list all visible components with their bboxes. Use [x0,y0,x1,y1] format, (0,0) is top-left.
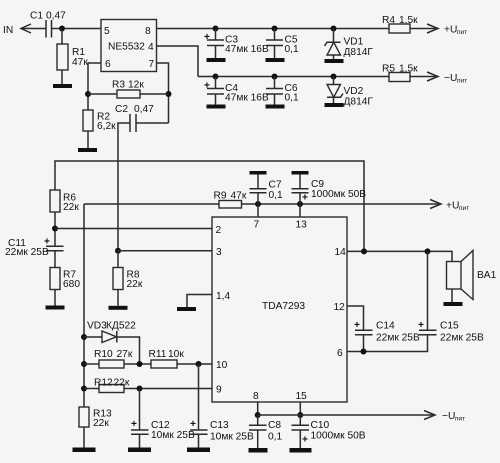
node R3 right junction [166,91,172,97]
node R3 left junction [85,91,91,97]
svg-text:VD1: VD1 [344,37,364,48]
ground above C9 [292,171,309,175]
node VD1 junction [331,26,337,32]
svg-text:NE5532: NE5532 [108,42,145,53]
svg-text:8: 8 [253,391,259,402]
svg-text:8: 8 [145,26,151,37]
capacitor C1 0,47 [30,11,66,38]
capacitor C6 0,1 [266,77,299,105]
resistor R10 27к [94,349,133,368]
resistor R9 47к [214,191,247,209]
svg-text:22мк 25В: 22мк 25В [440,333,484,344]
wire C7 node to pin 7 [257,204,259,217]
svg-text:9: 9 [216,385,222,396]
svg-text:1000мк 50В: 1000мк 50В [311,431,366,442]
svg-text:1000мк 50В: 1000мк 50В [311,189,366,200]
ground above C7 [250,171,267,175]
resistor R12 22к [94,378,130,393]
wire C14 to pin6 line [363,335,365,352]
resistor R7 680 [50,268,80,291]
ground under C6 [266,105,285,109]
node -U bottom supply arrow [424,411,465,423]
svg-text:10мк 25В: 10мк 25В [151,430,195,441]
wire pin 15 stub [299,402,301,415]
svg-text:27к: 27к [117,349,133,360]
svg-text:22мк 25В: 22мк 25В [5,247,49,258]
wire R7 to ground [54,290,56,306]
svg-text:7: 7 [149,59,155,70]
svg-text:C15: C15 [440,321,459,332]
capacitor C12 10мк 25В [131,419,195,441]
svg-text:+: + [418,320,424,331]
wire speaker to ground [451,289,453,302]
svg-text:680: 680 [63,279,80,290]
wire C11 to R7 [54,251,56,268]
wire pin 6 line [347,335,428,352]
wire pin 2 [55,228,212,230]
node pin8/C8 junction [255,412,261,418]
svg-text:22к: 22к [127,279,143,290]
svg-text:22к: 22к [114,378,130,389]
svg-text:+: + [131,419,137,430]
node C14/pin6 junction [361,349,367,355]
svg-text:22к: 22к [93,418,109,429]
svg-text:12к: 12к [128,80,144,91]
wire pin 4 [157,46,199,77]
svg-text:R9: R9 [214,191,227,202]
svg-text:+U: +U [446,201,459,212]
node R12 left junction [81,386,87,392]
svg-text:C8: C8 [268,420,281,431]
wire C12 drop [139,389,141,431]
svg-text:3: 3 [216,247,222,258]
ground under VD1 [325,59,344,63]
capacitor C11 22мк 25В [5,237,64,259]
capacitor C10 1000мк 50В [292,415,366,448]
svg-text:0,47: 0,47 [46,11,66,22]
node C4 junction [213,74,219,80]
node C15 tap junction [425,248,431,254]
svg-text:BA1: BA1 [477,270,497,281]
wire pin 6 to feedback node [88,63,101,110]
resistor R1 47к [57,44,88,70]
wire pin 7 to output node [157,63,169,123]
svg-text:0,47: 0,47 [134,104,154,115]
wire -aux rail [198,76,389,78]
node R11/C13 junction [196,361,202,367]
zener diode VD2 Д814Г [327,77,373,108]
svg-text:+U: +U [444,25,457,36]
wire pin 3 [118,250,212,252]
svg-text:C10: C10 [311,420,330,431]
node IN input arrow [3,24,31,36]
wire -U bottom rail [258,414,434,416]
resistor R2 6,2к [83,110,116,132]
svg-text:47к: 47к [72,57,88,68]
wire pin 8 stub [257,402,259,415]
ground under C3 [207,58,226,62]
wire to R8 [117,251,119,268]
ground under C8 [249,448,268,453]
wire R2 to ground [87,131,89,148]
ground under C4 [207,105,226,109]
node C5 junction [272,26,278,32]
svg-text:−U: −U [442,411,455,422]
wire R6 to node [54,212,56,246]
resistor R4 1,5к [382,15,418,33]
wire pin 8 to +aux rail [157,28,390,30]
svg-text:пит: пит [457,29,467,36]
svg-text:Д814Г: Д814Г [344,47,374,58]
svg-text:R12: R12 [94,378,113,389]
wire +U mid rail right part to arrow [242,203,441,205]
ground under C12 [128,448,151,453]
wire C2 right to pin7 node [136,122,169,124]
node feedback tap junction [361,248,367,254]
svg-text:1,5к: 1,5к [399,64,418,75]
svg-text:IN: IN [3,25,13,36]
diode VD3 КД522 [87,321,136,343]
node -U supply arrow [427,72,467,85]
svg-text:1,5к: 1,5к [399,15,418,26]
wire VD3 anode [84,336,102,338]
wire C13 to ground [198,434,200,447]
wire left vertical bus from R9 down to R13 [83,204,85,407]
svg-text:пит: пит [457,78,467,85]
node C6 junction [272,74,278,80]
wire input line to C1 [21,28,46,30]
wire C1 to NE5532 pin 5 [52,28,102,30]
svg-text:22мк 25В: 22мк 25В [376,333,420,344]
svg-text:+: + [354,320,360,331]
svg-text:1,4: 1,4 [216,291,230,302]
wire VD3 cathode down to R10/R11 node [117,337,140,364]
svg-text:C13: C13 [210,420,229,431]
wire +U mid rail left part [84,203,219,205]
svg-text:47мк 16В: 47мк 16В [225,93,269,104]
capacitor C4 47мк 16В [204,77,269,105]
capacitor C2 0,47 [115,104,154,132]
wire C13 drop [198,364,200,430]
svg-text:0,1: 0,1 [269,190,283,201]
wire feedback rail from output to R6 [55,161,364,251]
resistor R11 10к [149,349,185,368]
wire pin 12 to C14 [347,306,364,330]
svg-text:R3: R3 [112,80,125,91]
svg-text:C7: C7 [269,180,282,191]
svg-text:R10: R10 [94,349,113,360]
capacitor C9 1000мк 50В [292,175,367,205]
resistor R8 22к [113,268,143,291]
svg-text:13: 13 [296,220,308,231]
svg-text:47к: 47к [231,191,247,202]
wire R1 to ground [61,70,63,84]
svg-text:пит: пит [459,205,469,212]
wire R4 to +U arrow [410,28,437,30]
op-amp U1 NE5532 [101,20,157,72]
wire R10 to R11 [124,363,151,365]
ground under R8 [109,306,128,310]
svg-text:R11: R11 [149,349,167,360]
node R12/C12 junction [137,386,143,392]
wire pin 1,4 to ground [187,295,212,308]
ground under R13 [73,448,96,453]
svg-text:−U: −U [444,73,457,84]
ground under R2 [78,148,97,152]
node C3 junction [213,26,219,32]
svg-text:7: 7 [254,220,260,231]
svg-text:10мк 25В: 10мк 25В [210,432,254,443]
svg-text:+: + [204,32,210,43]
ground under R7 [46,306,65,310]
ground under R1 [53,84,72,88]
svg-text:+: + [44,237,50,248]
ground under VD2 [325,103,344,107]
node +U supply arrow [427,24,467,36]
svg-text:47мк 16В: 47мк 16В [225,44,269,55]
svg-text:+: + [190,419,196,430]
wire R12 to pin 9 [124,388,212,390]
svg-text:C14: C14 [376,321,395,332]
svg-text:R4: R4 [382,15,395,26]
svg-text:4: 4 [148,42,154,53]
resistor R3 12к [112,80,144,99]
node C9 junction [297,201,303,207]
svg-text:22к: 22к [63,202,79,213]
wire R12 left [84,388,99,390]
svg-text:C1: C1 [30,11,43,22]
wire R5 to -U arrow [410,76,437,78]
node VD3 left junction [81,334,87,340]
node VD2 junction [331,74,337,80]
capacitor C8 0,1 [249,415,282,448]
svg-text:6: 6 [105,59,111,70]
svg-text:пит: пит [455,416,465,423]
capacitor C7 0,1 [250,175,283,205]
svg-text:Д814Г: Д814Г [344,97,374,108]
capacitor C14 22мк 25В [354,320,420,344]
svg-text:VD2: VD2 [344,86,364,97]
wire C12 to ground [139,434,141,447]
wire R10 left [84,363,99,365]
ground under C13 [187,448,210,453]
amplifier IC TDA7293 [212,217,347,402]
wire R11 to pin 10 [177,363,212,365]
capacitor C15 22мк 25В [418,320,484,344]
capacitor C13 10мк 25В [190,419,254,443]
node C7 junction [255,201,261,207]
svg-text:C2: C2 [115,104,128,115]
wire R3 right [140,93,169,95]
node C2/R8/pin3 junction [115,248,121,254]
svg-text:R5: R5 [382,64,395,75]
wire R8 to ground [117,290,119,306]
svg-text:0,1: 0,1 [285,44,299,55]
svg-text:+: + [302,435,308,446]
resistor R6 22к [50,190,79,213]
svg-text:6,2к: 6,2к [97,121,116,132]
svg-text:0,1: 0,1 [268,432,282,443]
svg-text:14: 14 [335,247,347,258]
svg-text:+: + [302,193,308,204]
wire C15 drop from output [427,251,429,330]
wire stub to R1 [61,29,63,45]
ground under speaker [444,302,463,306]
svg-text:6: 6 [337,348,343,359]
resistor R13 22к [79,407,112,429]
svg-text:15: 15 [296,391,308,402]
node R10/R11/VD3 junction [137,361,143,367]
svg-text:5: 5 [104,26,110,37]
svg-text:+: + [204,81,210,92]
svg-text:TDA7293: TDA7293 [262,301,305,312]
ground under C10 [290,448,312,453]
resistor R5 1,5к [382,64,418,82]
svg-text:12: 12 [334,302,346,313]
capacitor C3 47мк 16В [204,29,269,59]
ground under C5 [266,58,285,62]
wire C2 left down to pin3 node [118,123,130,251]
svg-text:10к: 10к [168,349,184,360]
node R10 left junction [81,361,87,367]
ground at pin 1,4 [177,307,196,311]
svg-text:10: 10 [216,360,228,371]
loudspeaker BA1 [447,251,497,300]
node +U mid supply arrow [430,200,469,213]
wire pin 14 output line [347,251,452,261]
wire R3 left [88,93,117,95]
node pin15/C10 junction [297,412,303,418]
node junction C1/R1 [59,26,65,32]
svg-text:0,1: 0,1 [285,93,299,104]
wire C9 node to pin 13 [299,204,301,217]
svg-text:2: 2 [216,225,222,236]
node R6/C11/pin2 junction [52,226,58,232]
svg-text:КД522: КД522 [106,321,136,332]
capacitor C5 0,1 [266,29,299,59]
zener diode VD1 Д814Г [325,29,374,60]
wire R13 to ground [83,427,85,448]
svg-text:VD3: VD3 [87,321,107,332]
